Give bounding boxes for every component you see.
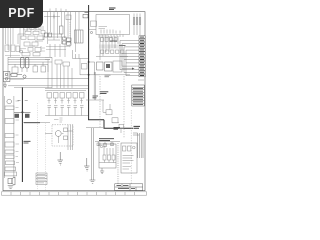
- row6: [22, 53, 30, 56]
- right circle: [133, 146, 136, 149]
- label PD: [25, 99, 28, 101]
- wire: heavy jog: [88, 120, 133, 129]
- capacitor C806: [41, 66, 46, 72]
- staircase boxes right-center: [103, 100, 124, 133]
- label (R): [18, 99, 21, 101]
- connector pins wires: [120, 41, 139, 76]
- label text rows: [5, 48, 45, 56]
- junction plus: [53, 15, 55, 19]
- wire: inner verticals: [68, 125, 73, 150]
- second rect row: [101, 50, 104, 53]
- wire: vertical drops from badge area: [6, 26, 44, 57]
- capacitor row C9xx: [48, 106, 84, 108]
- label SMPS net heavy: [99, 139, 114, 141]
- ground G5: [100, 168, 104, 174]
- wire: long horizontal rail y78.5: [3, 78, 89, 80]
- wire: vertical pair: [86, 72, 104, 128]
- connector circle: [90, 31, 92, 33]
- board inner text: [99, 27, 108, 29]
- capacitor C921: [64, 136, 68, 140]
- label B+ net: [24, 141, 31, 143]
- staircase wires: [103, 100, 121, 133]
- connector box rows: [139, 36, 145, 77]
- main board box: [96, 15, 130, 35]
- right text: [123, 167, 132, 170]
- label BN41: [109, 8, 116, 10]
- block divider dashed pair: [117, 143, 119, 184]
- comb hatch: [100, 45, 122, 49]
- wire verticals tall pair: [76, 54, 80, 59]
- ground: inlet earth: [3, 82, 7, 88]
- dashed drop lines: [100, 76, 124, 138]
- capacitor C805: [33, 66, 38, 72]
- title frame: [115, 184, 143, 191]
- left sub box: [99, 144, 116, 168]
- resistor grid row2: [25, 31, 31, 34]
- wire verticals down to rows: [48, 57, 72, 88]
- junction dot B2: [88, 74, 90, 76]
- PDF badge: [0, 0, 43, 28]
- right sub box: [121, 143, 137, 173]
- snubber boxes: [55, 60, 62, 64]
- wire rails: [45, 88, 88, 90]
- junction dot B1: [88, 61, 90, 63]
- connector labels ink: [140, 37, 144, 75]
- wire: rail y141 right: [95, 110, 131, 184]
- IC902 dashed enclosure: [52, 125, 73, 146]
- pin circle N: [5, 78, 8, 81]
- wire spine rails: [5, 96, 14, 178]
- diode row D901..D906: [47, 93, 52, 99]
- wire: step rail: [73, 50, 89, 75]
- wire: rail y56.5: [96, 56, 128, 58]
- photocoupler PC801: [75, 30, 84, 43]
- wire: [45, 131, 73, 143]
- label RP SUB heavy: [114, 127, 121, 129]
- wire branches: [14, 111, 31, 113]
- legend text ink: [133, 88, 143, 104]
- wire feeder vertical: [120, 41, 126, 76]
- wire drop: [86, 158, 88, 166]
- box module M4: [5, 142, 14, 147]
- left small parts row: [5, 45, 9, 52]
- resistor grid row3: [21, 36, 26, 39]
- dashed vertical: [130, 110, 132, 184]
- wire: mid horizontal with dark segment: [22, 122, 50, 124]
- right hatch rows: [123, 156, 134, 164]
- box module M3: [5, 134, 14, 138]
- label under rail: [54, 118, 63, 122]
- aux rect: [66, 15, 71, 20]
- diode bridge D801: [12, 67, 18, 73]
- varistor ZR801: [23, 75, 26, 78]
- text row: [46, 47, 70, 50]
- note table frame: [36, 173, 47, 185]
- hanging parts: [99, 142, 113, 148]
- wire: rail y85.8 and y87.3: [8, 85, 88, 87]
- wire joins: [8, 57, 48, 78]
- wire: [10, 75, 24, 80]
- resistor R921: [64, 128, 68, 132]
- label net name: [105, 75, 111, 77]
- wire drop: [50, 44, 65, 57]
- box module M7: [6, 161, 15, 165]
- value text row: [48, 100, 84, 102]
- drawing frame border: [3, 12, 145, 191]
- wire bus top hooks: [133, 133, 139, 135]
- wire: stubs above frame: [50, 8, 66, 12]
- wire verticals: [100, 35, 118, 60]
- wire: heavy vertical left-center: [21, 88, 23, 183]
- legend rows: [132, 88, 144, 104]
- fuse box on line: [83, 14, 88, 18]
- title text ink: [117, 186, 136, 189]
- wire: rail y75: [80, 74, 100, 76]
- wire bus lines: [8, 57, 52, 64]
- left sub component row: [103, 155, 106, 160]
- wire: faint dotted verticals: [38, 103, 46, 190]
- box module M9: [5, 172, 17, 176]
- wire pair center: [92, 128, 94, 180]
- wire rails: [45, 57, 52, 59]
- text ticks: [16, 101, 20, 163]
- junction arrow: [132, 68, 135, 70]
- wire: B+ heavy vertical: [88, 5, 90, 120]
- wire drops2: [49, 107, 82, 115]
- wire into board: [89, 29, 96, 31]
- wire: branch from B+: [89, 62, 95, 75]
- resistor grid row1: [24, 27, 28, 30]
- varistor circle: [20, 50, 23, 53]
- caps row5: [28, 48, 33, 52]
- wire: h-link top: [44, 16, 60, 18]
- choke narrow rect: [60, 26, 64, 34]
- lamp L1 circle: [7, 99, 12, 104]
- wire drop: [59, 152, 61, 160]
- wire drops: [49, 98, 82, 104]
- wire: rail2: [14, 86, 52, 88]
- box module M6: [5, 155, 14, 158]
- inlet circle: [100, 145, 102, 147]
- wire links: [18, 34, 43, 52]
- connector column CNM1: [134, 14, 140, 36]
- dotted vertical: [69, 22, 71, 48]
- label dark spots: [110, 41, 126, 46]
- right sub comp top: [123, 146, 126, 151]
- label T-CON heavy: [100, 92, 109, 94]
- left sub wires: [104, 146, 113, 155]
- box module M8: [5, 167, 16, 171]
- capacitor pair dark right: [67, 38, 72, 41]
- speaker SP1: [8, 177, 15, 188]
- wire: bottom rail: [45, 115, 88, 117]
- page corner text: [138, 79, 144, 81]
- top frame tick: [85, 12, 89, 14]
- row of tiny rects: [101, 38, 104, 42]
- wire bus: [138, 133, 143, 158]
- transformer T801 windings: [21, 58, 25, 69]
- feedback boxes: [97, 62, 104, 70]
- legend frame: [132, 85, 144, 106]
- IC902 circle: [55, 131, 61, 137]
- label +B heavy: [93, 96, 99, 98]
- ground G3: [84, 166, 89, 171]
- ground G2: [57, 160, 63, 165]
- diode D right: [25, 114, 30, 118]
- resistor R brood: [48, 34, 62, 40]
- title inner lines: [115, 184, 143, 191]
- branch cluster at junction: [14, 100, 31, 118]
- wire bottom: [99, 160, 116, 163]
- resistor grid row4: [24, 42, 30, 46]
- fuse F801: [11, 74, 17, 77]
- note text: [37, 175, 46, 183]
- wire h-link to edge: [95, 69, 134, 75]
- dark part fill: [106, 64, 110, 68]
- note table rows: [36, 176, 47, 182]
- tiny dark pair: [63, 37, 67, 40]
- box module M5: [5, 150, 14, 153]
- ground G4: [90, 180, 96, 183]
- box module M2: [5, 119, 14, 124]
- resistor pair dark left: [45, 33, 48, 37]
- bottom ruler scale: [2, 192, 147, 195]
- board bottom tick row: [99, 35, 123, 39]
- wire: verticals: [48, 12, 80, 52]
- board inner pins: [101, 30, 120, 34]
- connector P801 body: [3, 72, 9, 82]
- junction dot: [21, 111, 23, 113]
- rect Q901: [82, 64, 88, 70]
- diode D left: [15, 114, 20, 118]
- pin circle L: [5, 73, 8, 76]
- small box right of B+: [91, 21, 97, 26]
- box module M1: [5, 106, 14, 110]
